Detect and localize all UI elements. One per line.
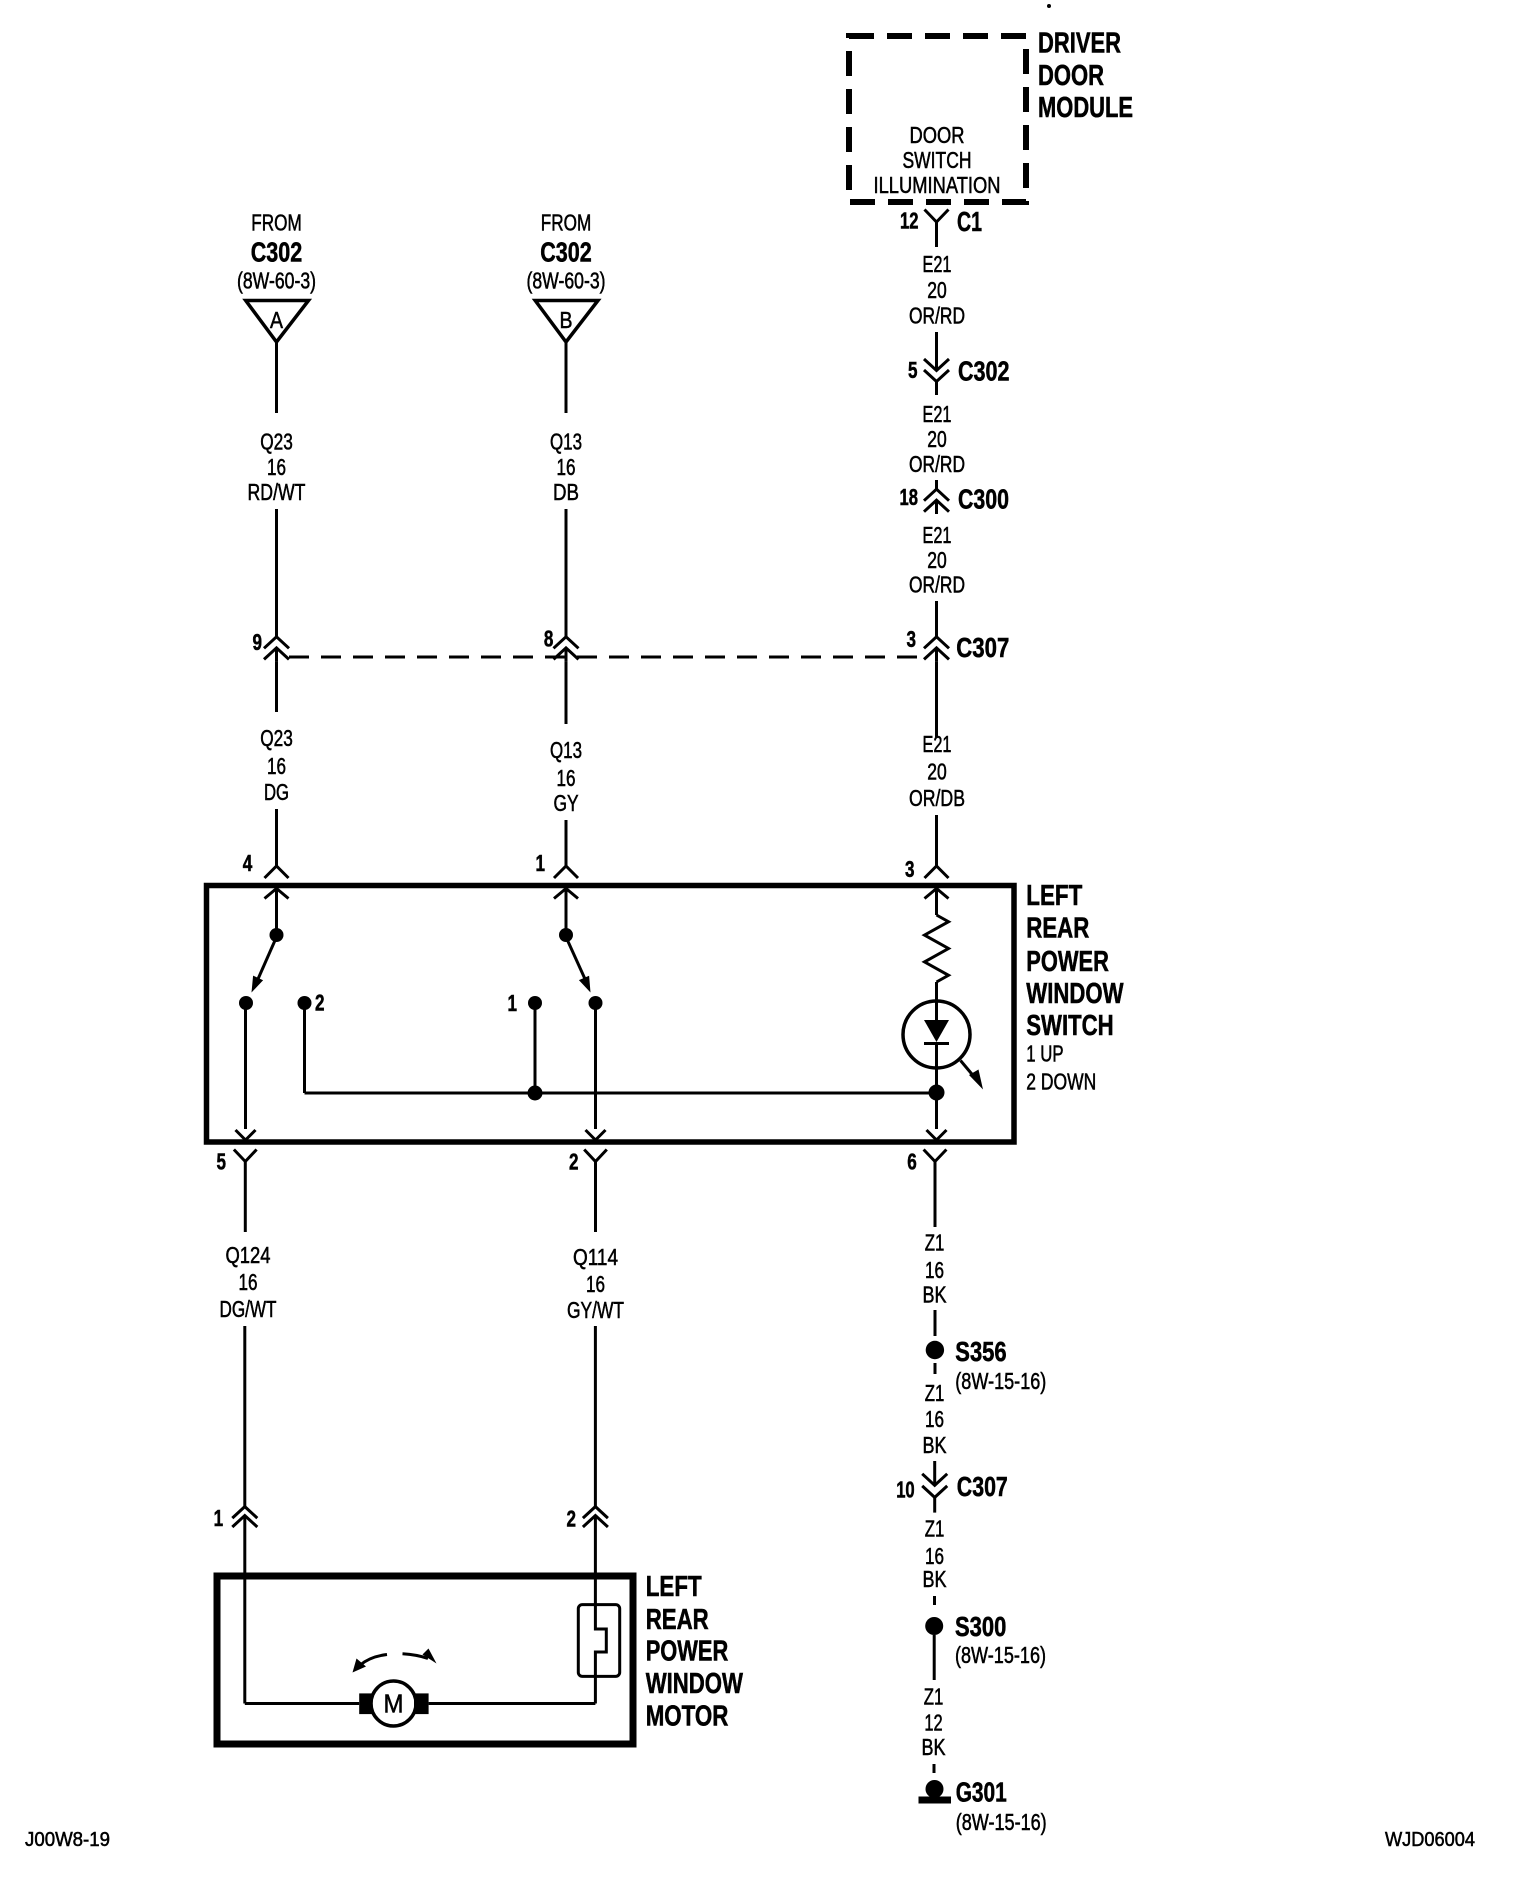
svg-text:J00W8-19: J00W8-19	[25, 1829, 110, 1851]
svg-text:Z1: Z1	[924, 1683, 944, 1709]
svg-text:3: 3	[907, 626, 917, 652]
switch B contact (pin 2 side)	[589, 996, 603, 1010]
svg-text:DOOR: DOOR	[910, 122, 965, 148]
svg-text:1: 1	[214, 1505, 224, 1531]
svg-text:OR/RD: OR/RD	[909, 572, 965, 598]
switch A contact (pin 5 side)	[239, 996, 253, 1010]
wire Q23 16 RD/WT (A to C307)	[275, 342, 278, 413]
svg-text:DG/WT: DG/WT	[220, 1296, 277, 1322]
svg-text:1 UP: 1 UP	[1026, 1041, 1063, 1067]
svg-text:Q23: Q23	[260, 429, 293, 455]
svg-text:16: 16	[586, 1271, 605, 1297]
svg-text:E21: E21	[923, 731, 952, 757]
svg-text:E21: E21	[923, 401, 952, 427]
svg-text:Z1: Z1	[925, 1230, 945, 1256]
left rear power window switch box	[207, 886, 1015, 1143]
svg-text:RD/WT: RD/WT	[248, 479, 306, 505]
wire junction to pin 6	[935, 1093, 938, 1129]
svg-text:9: 9	[253, 629, 263, 655]
wire contact to pin 5	[244, 1003, 247, 1129]
svg-text:POWER: POWER	[646, 1636, 729, 1668]
svg-text:C302: C302	[251, 237, 303, 268]
svg-text:(8W-60-3): (8W-60-3)	[527, 268, 606, 294]
switch A pivot	[270, 928, 284, 942]
connector at switch pin 4 (chevrons at box edge)	[265, 866, 289, 878]
off-page connector B (triangle)	[535, 301, 598, 343]
motor M1 (window lift motor)	[371, 1681, 416, 1726]
left rear power window motor box	[217, 1576, 633, 1744]
motor rotation arrows	[360, 1655, 388, 1666]
svg-text:DRIVER: DRIVER	[1038, 28, 1121, 60]
svg-text:Q124: Q124	[226, 1242, 271, 1268]
resistor (illumination dropping)	[925, 915, 949, 982]
svg-text:(8W-15-16): (8W-15-16)	[955, 1642, 1046, 1668]
svg-text:16: 16	[557, 454, 576, 480]
svg-text:20: 20	[927, 426, 947, 452]
wire Q13 16 DB (B to C307)	[565, 342, 568, 413]
svg-text:2: 2	[567, 1506, 577, 1532]
svg-text:MODULE: MODULE	[1038, 92, 1133, 124]
svg-text:BK: BK	[923, 1566, 948, 1592]
svg-text:BK: BK	[923, 1432, 948, 1458]
svg-text:WINDOW: WINDOW	[646, 1668, 744, 1700]
connector pin 5 (female Y)	[234, 1150, 257, 1162]
svg-text:10: 10	[896, 1476, 915, 1502]
off-page connector A (triangle)	[246, 301, 309, 343]
svg-text:20: 20	[927, 277, 947, 303]
svg-text:4: 4	[243, 850, 253, 876]
switch A terminal 2	[298, 996, 312, 1010]
svg-text:WJD06004: WJD06004	[1385, 1829, 1475, 1851]
svg-text:DB: DB	[553, 479, 579, 505]
svg-text:GY/WT: GY/WT	[567, 1297, 624, 1323]
svg-text:C302: C302	[540, 237, 592, 268]
svg-text:1: 1	[536, 850, 546, 876]
in-line connector symbol (motor harness)	[578, 1605, 619, 1677]
svg-text:REAR: REAR	[646, 1604, 709, 1636]
svg-text:DG: DG	[264, 779, 289, 805]
arrow into box edge (pin 2)	[586, 1130, 606, 1140]
wire resistor to LED	[935, 982, 938, 1001]
switch B terminal 1	[528, 996, 542, 1010]
svg-text:M: M	[384, 1689, 404, 1719]
arrow into box edge (pin 5)	[236, 1130, 256, 1140]
wire terminal 1 down	[534, 1003, 537, 1093]
wire Q23 16 DG (C307 to switch)	[275, 662, 278, 712]
dashed connector line C307	[289, 656, 924, 659]
wire contact to pin 2	[594, 1003, 597, 1129]
arrow into box edge (pin 6)	[927, 1130, 947, 1140]
svg-text:1: 1	[508, 990, 518, 1016]
svg-text:FROM: FROM	[541, 209, 592, 235]
svg-text:OR/DB: OR/DB	[909, 785, 965, 811]
svg-text:5: 5	[217, 1148, 227, 1174]
svg-text:SWITCH: SWITCH	[903, 147, 972, 173]
LED emission arrow	[961, 1061, 977, 1080]
svg-text:BK: BK	[922, 1734, 947, 1760]
svg-text:REAR: REAR	[1026, 913, 1089, 945]
svg-text:C302: C302	[958, 356, 1010, 387]
junction terminal 1 / jumper	[528, 1086, 543, 1101]
wire Q13 16 GY (C307 to switch)	[565, 662, 568, 724]
svg-text:16: 16	[267, 753, 286, 779]
connector C1 (female half)	[925, 210, 949, 223]
svg-text:E21: E21	[923, 251, 952, 277]
connector C302 (double chevron down)	[924, 359, 949, 371]
svg-text:8: 8	[544, 626, 554, 652]
svg-text:16: 16	[925, 1257, 944, 1283]
wire E21 20 OR/DB (C307 to switch)	[935, 662, 938, 737]
wire pin 3 to resistor	[935, 889, 938, 916]
svg-text:12: 12	[900, 207, 919, 233]
svg-text:FROM: FROM	[251, 209, 302, 235]
svg-text:5: 5	[908, 357, 918, 383]
svg-text:(8W-15-16): (8W-15-16)	[955, 1368, 1046, 1394]
svg-text:Q13: Q13	[550, 429, 582, 455]
wire motor pin 1 to motor	[243, 1576, 246, 1704]
svg-text:16: 16	[925, 1406, 944, 1432]
wire terminal 2 down	[303, 1003, 306, 1093]
driver door module DDM (dashed box)	[849, 36, 1026, 202]
wire LED to junction	[935, 1068, 938, 1093]
svg-text:12: 12	[924, 1710, 942, 1736]
svg-text:6: 6	[907, 1148, 917, 1174]
connector pin 6 (female Y)	[924, 1150, 947, 1162]
svg-text:Q114: Q114	[573, 1244, 618, 1270]
wire switch pole B	[565, 889, 568, 936]
svg-text:16: 16	[557, 765, 576, 791]
svg-text:MOTOR: MOTOR	[646, 1701, 729, 1733]
svg-text:C1: C1	[957, 206, 982, 237]
svg-text:LEFT: LEFT	[1026, 880, 1082, 912]
svg-text:LEFT: LEFT	[646, 1571, 702, 1603]
svg-text:OR/RD: OR/RD	[909, 303, 965, 329]
svg-text:18: 18	[900, 484, 919, 510]
svg-text:Q13: Q13	[550, 737, 582, 763]
svg-text:DOOR: DOOR	[1038, 60, 1104, 92]
svg-text:2: 2	[315, 990, 325, 1016]
svg-text:C307: C307	[957, 1471, 1008, 1502]
svg-text:POWER: POWER	[1026, 946, 1109, 978]
splice S300	[925, 1617, 943, 1635]
svg-text:Q23: Q23	[260, 725, 293, 751]
svg-text:SWITCH: SWITCH	[1026, 1010, 1113, 1042]
svg-text:Z1: Z1	[925, 1515, 945, 1541]
stray mark	[1047, 4, 1051, 8]
connector C307 bottom (double chevron down)	[922, 1474, 947, 1486]
connector C307 pin 9 (double chevron up)	[264, 637, 289, 649]
svg-text:S356: S356	[955, 1336, 1006, 1367]
svg-text:Z1: Z1	[925, 1380, 945, 1406]
svg-text:C300: C300	[958, 484, 1009, 515]
connector at switch pin 1 (chevrons at box edge)	[554, 866, 578, 878]
connector at switch pin 3 (chevrons at box edge)	[925, 866, 949, 878]
wire switch pole A	[275, 889, 278, 936]
wire Z1 12 BK (S300 to G301)	[933, 1635, 936, 1680]
svg-text:(8W-15-16): (8W-15-16)	[956, 1809, 1047, 1835]
jumper wire (terminal 2 to lamp return)	[305, 1092, 937, 1095]
ground G301	[926, 1780, 944, 1798]
splice S356	[926, 1341, 944, 1359]
svg-text:WINDOW: WINDOW	[1026, 978, 1124, 1010]
svg-text:20: 20	[927, 547, 947, 573]
svg-text:S300: S300	[955, 1611, 1006, 1642]
connector motor pin 2 (double chevron up)	[583, 1507, 608, 1519]
switch A blade (arrow)	[258, 937, 277, 979]
svg-text:3: 3	[905, 856, 915, 882]
connector pin 2 (female Y)	[584, 1150, 607, 1162]
svg-text:B: B	[560, 307, 573, 333]
svg-text:E21: E21	[923, 522, 952, 548]
switch B pivot	[559, 928, 573, 942]
svg-text:GY: GY	[554, 790, 579, 816]
connector C307 pin 8 (double chevron up)	[554, 637, 579, 649]
LED lamp (switch illumination)	[903, 1001, 970, 1068]
svg-text:A: A	[270, 307, 284, 333]
svg-text:20: 20	[927, 759, 947, 785]
wire motor pin 2 to motor	[594, 1676, 597, 1703]
switch B blade (arrow)	[566, 937, 585, 979]
connector C300 (double chevron up)	[924, 489, 949, 501]
svg-text:2 DOWN: 2 DOWN	[1026, 1069, 1096, 1095]
connector C307 top (double chevron up)	[924, 637, 949, 649]
svg-text:16: 16	[267, 454, 286, 480]
svg-text:G301: G301	[956, 1777, 1007, 1808]
svg-text:2: 2	[569, 1148, 579, 1174]
wire Z1 16 BK (S356 to C307)	[934, 1363, 937, 1374]
svg-text:16: 16	[239, 1269, 258, 1295]
svg-text:C307: C307	[956, 632, 1009, 663]
svg-text:BK: BK	[923, 1282, 948, 1308]
junction lamp return	[929, 1085, 945, 1101]
connector motor pin 1 (double chevron up)	[232, 1507, 257, 1519]
svg-text:OR/RD: OR/RD	[909, 451, 965, 477]
svg-text:(8W-60-3): (8W-60-3)	[237, 268, 316, 294]
svg-text:ILLUMINATION: ILLUMINATION	[874, 172, 1001, 198]
